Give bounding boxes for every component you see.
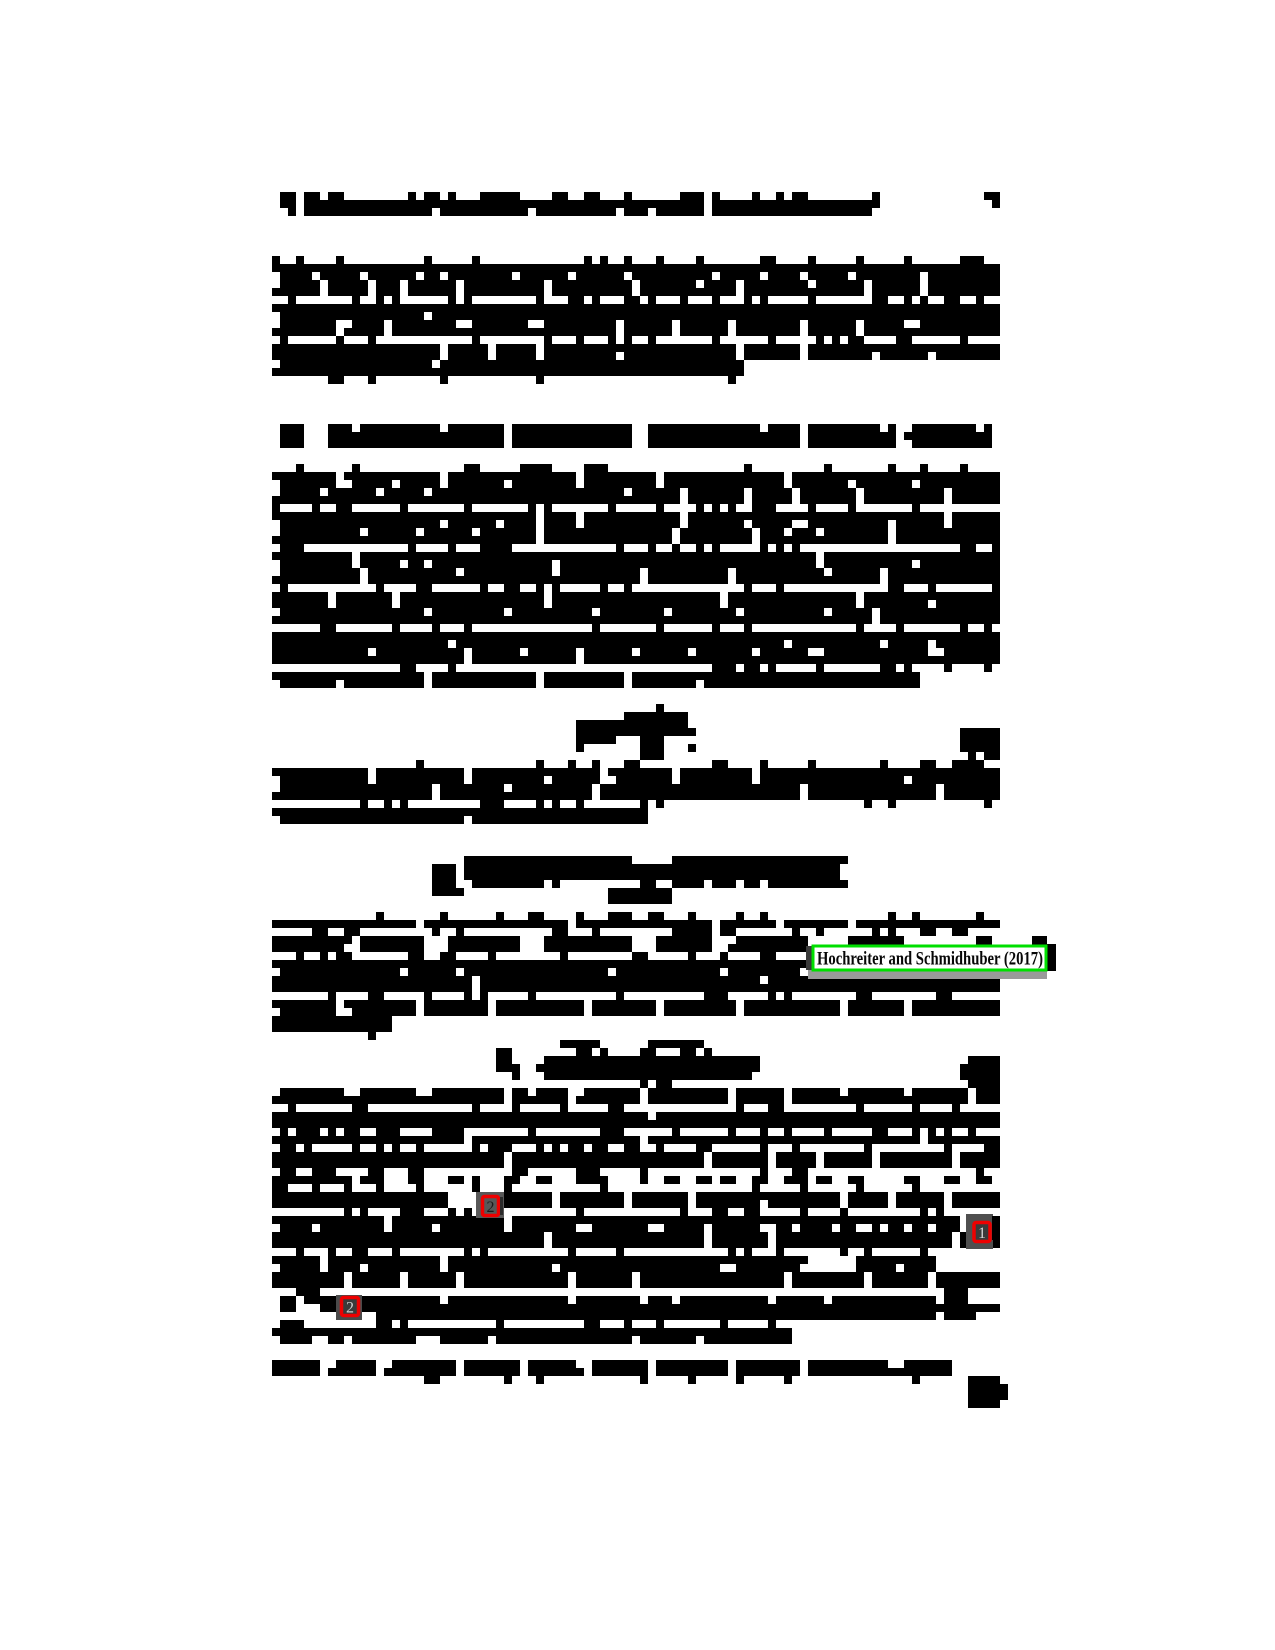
equation (2) update rule — [496, 1040, 1000, 1088]
svg-text:1: 1 — [978, 1225, 986, 1242]
svg-text:2: 2 — [487, 1199, 495, 1216]
green citation hyperlink box — [813, 946, 1046, 970]
grey halo around red reference box [1] right margin — [966, 1214, 993, 1249]
svg-text:Hochreiter and Schmidhuber (20: Hochreiter and Schmidhuber (2017) — [817, 949, 1043, 970]
grey halo around red reference box [2] mid page — [476, 1192, 504, 1218]
fourth body paragraph — [272, 912, 1000, 1040]
black fragment right of red box [1] — [992, 1216, 1000, 1240]
first body paragraph — [272, 256, 1000, 384]
black mosaic fragments above green citation box — [848, 936, 904, 945]
fifth body paragraph with citation markers — [272, 1088, 1000, 1272]
red reference box (2) bottom — [342, 1298, 359, 1316]
running head of the page — [280, 192, 1000, 216]
red reference box [1] — [974, 1223, 990, 1242]
svg-text:2: 2 — [346, 1300, 354, 1317]
section heading 2 BPRL — [280, 424, 992, 448]
sixth body paragraph implementation details — [272, 1272, 1000, 1344]
grey halo around red reference box (2) bottom left — [336, 1295, 362, 1320]
red reference box [2] — [483, 1197, 499, 1216]
displayed gradient equation — [432, 856, 848, 904]
third body paragraph — [272, 768, 1000, 824]
final text line with fraction block — [272, 1360, 1008, 1408]
bracket right of red box — [500, 1197, 503, 1215]
grey pixelation halo under green citation box — [808, 970, 1047, 979]
equation (1) with fraction — [416, 704, 1000, 768]
second body paragraph — [272, 464, 1000, 688]
black fragment right of green citation box — [1047, 944, 1056, 971]
